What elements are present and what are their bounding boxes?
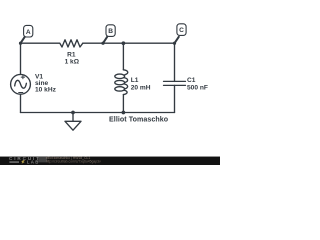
junction dot L1 bottom bbox=[122, 111, 126, 115]
svg-text:R1: R1 bbox=[67, 52, 76, 59]
junction dot ground bbox=[71, 111, 75, 115]
svg-text:10 kHz: 10 kHz bbox=[35, 87, 57, 94]
wire C1 bottom lead bbox=[174, 85, 176, 112]
svg-text:1 kΩ: 1 kΩ bbox=[65, 59, 80, 66]
footer logo dashes bbox=[9, 161, 19, 162]
svg-text:Elliot Tomaschko: Elliot Tomaschko bbox=[109, 115, 169, 123]
footer logo bolt bbox=[21, 160, 25, 164]
V1 plus sign bbox=[21, 75, 24, 78]
V1 sine wave bbox=[15, 80, 27, 88]
wire V1 bottom to ground rail bbox=[20, 94, 22, 112]
footer logo badge bbox=[38, 157, 47, 162]
svg-text:C: C bbox=[179, 27, 184, 34]
ground triangle bbox=[65, 121, 81, 130]
svg-text:LAB: LAB bbox=[27, 160, 40, 165]
wire C1 top lead bbox=[174, 43, 176, 81]
svg-text:http://circuitlab.com/c/7xq6u4: http://circuitlab.com/c/7xq6u45gap3v bbox=[46, 160, 101, 164]
wire A vertical down to V1 bbox=[20, 43, 22, 74]
V1 minus sign bbox=[19, 92, 23, 94]
inductor L1 coil bbox=[123, 70, 127, 75]
node A flag bbox=[19, 25, 33, 44]
wire top: A corner to resistor bbox=[21, 42, 60, 44]
voltage source V1 bbox=[11, 74, 31, 94]
wire L1 top lead bbox=[122, 43, 124, 70]
ground stub bbox=[72, 113, 74, 122]
node B flag bbox=[101, 25, 115, 45]
svg-text:500 nF: 500 nF bbox=[187, 85, 208, 92]
svg-text:20 mH: 20 mH bbox=[131, 85, 151, 92]
node C flag bbox=[173, 24, 186, 45]
wire L1 bottom lead bbox=[122, 95, 124, 113]
wire bottom rail bbox=[21, 112, 175, 114]
svg-text:A: A bbox=[26, 29, 31, 36]
svg-text:C1: C1 bbox=[187, 77, 196, 84]
footer bar bbox=[0, 157, 220, 165]
capacitor C1 plates bbox=[164, 81, 186, 85]
svg-text:L1: L1 bbox=[131, 77, 139, 84]
junction dot B bbox=[122, 41, 126, 45]
wire resistor to node C corner bbox=[83, 42, 175, 44]
svg-text:B: B bbox=[108, 28, 113, 35]
resistor R1 bbox=[60, 40, 83, 47]
